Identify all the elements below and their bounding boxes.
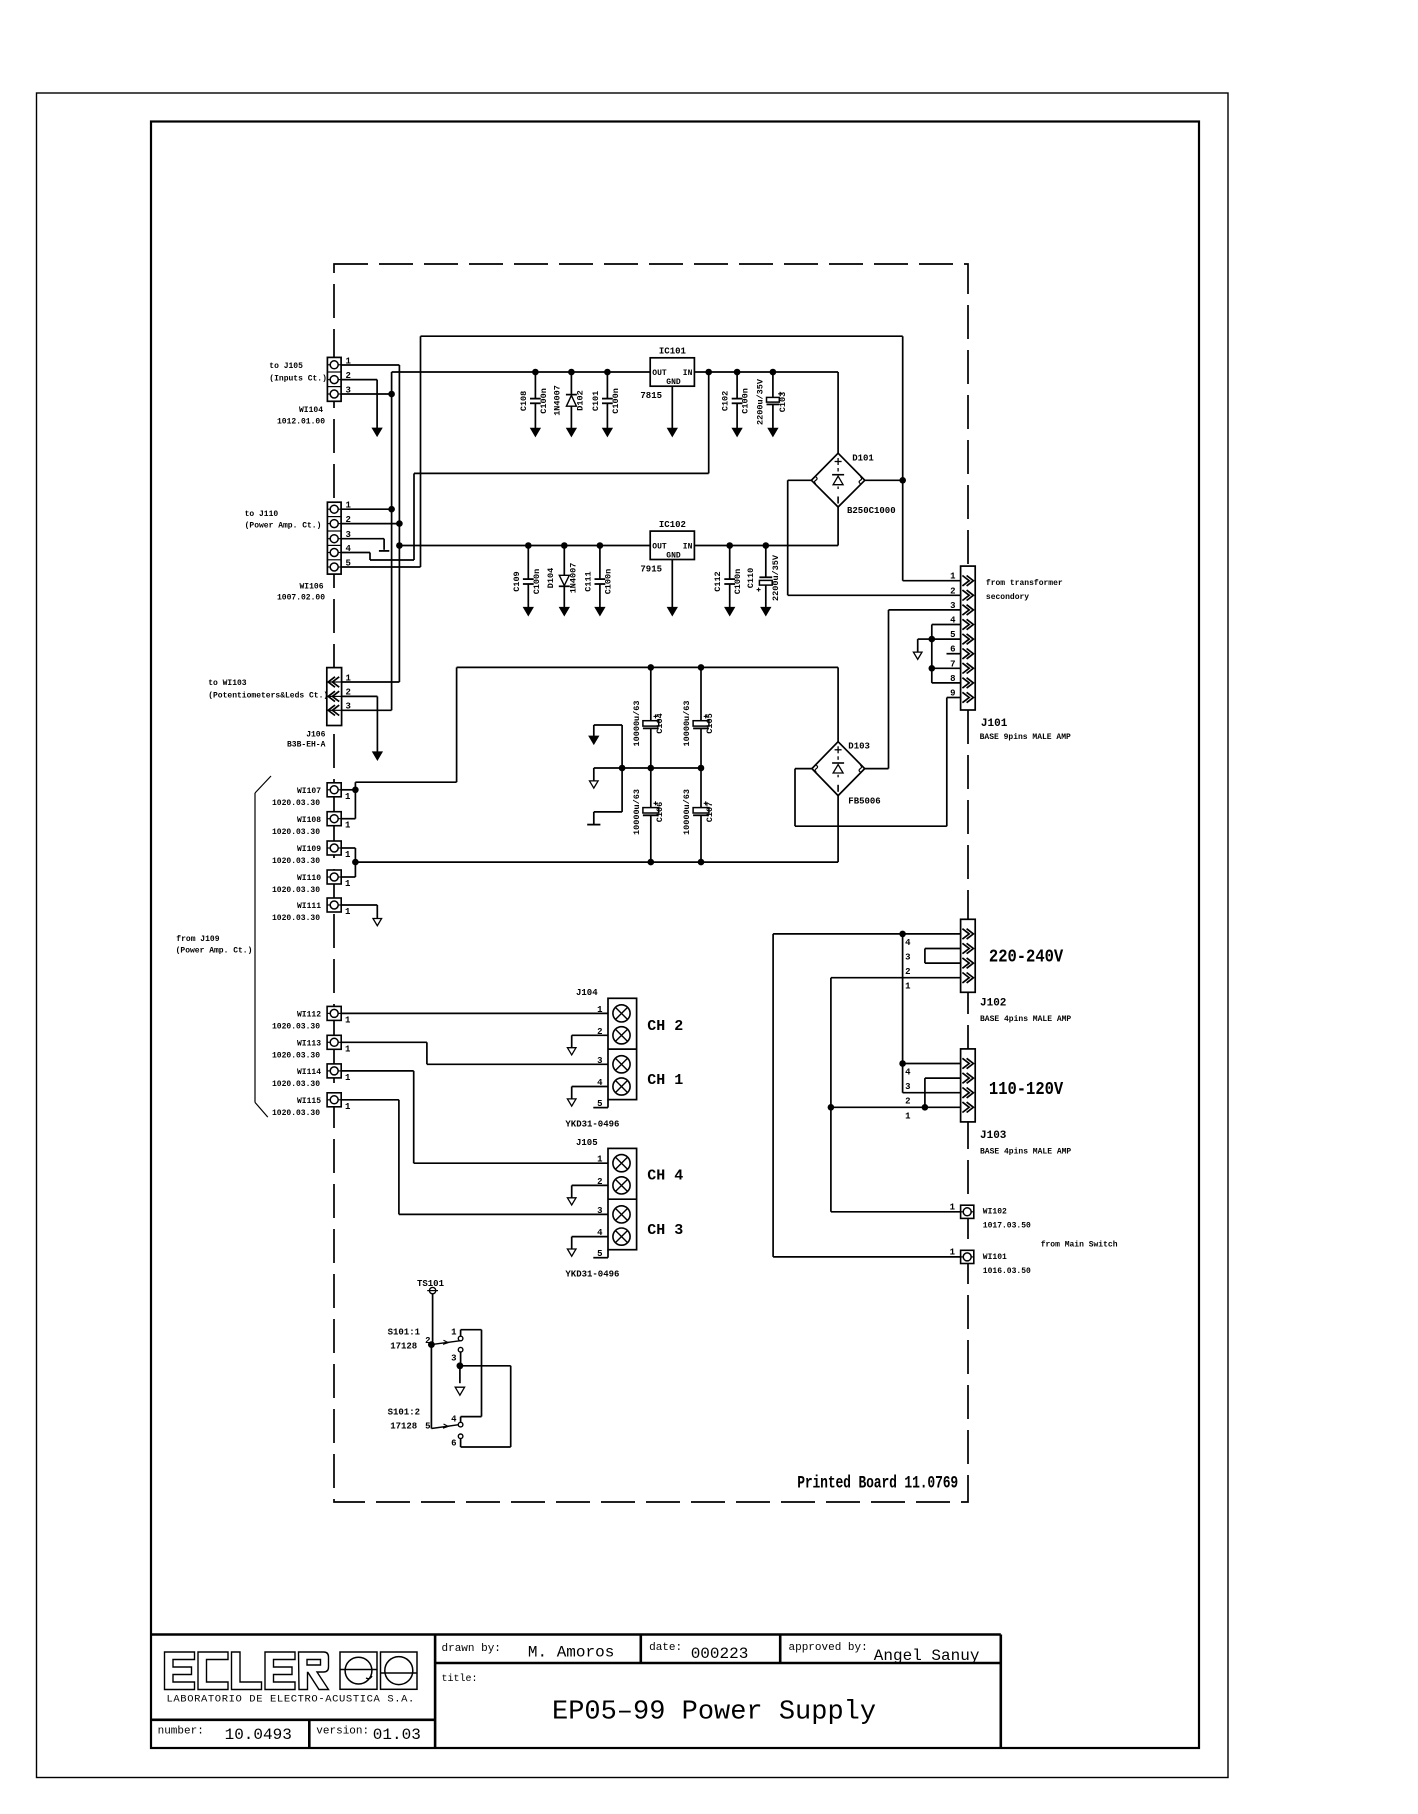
svg-text:GND: GND [666, 551, 681, 560]
svg-text:C100n: C100n [741, 388, 751, 414]
svg-text:3: 3 [346, 386, 351, 396]
svg-text:4: 4 [905, 938, 911, 948]
svg-text:from transformer: from transformer [986, 579, 1063, 588]
svg-text:WI110: WI110 [297, 874, 321, 883]
connector WI111 1020.03.30 [272, 898, 351, 923]
svg-text:WI106: WI106 [299, 583, 323, 592]
svg-text:1: 1 [905, 982, 911, 992]
svg-text:220-240V: 220-240V [989, 947, 1064, 968]
wire net U: WI113 to J104.3 [341, 1042, 608, 1064]
connector J101 BASE 9pins MALE AMP [950, 566, 1071, 742]
svg-text:1020.03.30: 1020.03.30 [272, 1080, 320, 1089]
bridge rectifier D103 FB5006 [812, 741, 881, 806]
svg-text:C100n: C100n [611, 388, 621, 414]
title block grid [151, 1635, 1001, 1749]
svg-text:1: 1 [905, 1111, 911, 1121]
svg-text:1: 1 [345, 1015, 351, 1025]
switch S101:2 17128 [388, 1345, 511, 1449]
svg-text:1016.03.50: 1016.03.50 [983, 1267, 1031, 1276]
wire net B: WI104.2 to ground [341, 380, 382, 436]
svg-text:1: 1 [950, 1248, 956, 1258]
svg-text:C112: C112 [713, 571, 723, 591]
svg-text:YKD31-0496: YKD31-0496 [565, 1120, 619, 1130]
svg-text:1: 1 [950, 1203, 956, 1213]
wire net J: C104/C105 top rail to D103 + and WI107/WI108 [341, 664, 838, 819]
svg-text:1: 1 [346, 501, 352, 511]
svg-text:1: 1 [346, 357, 352, 367]
svg-text:CH 1: CH 1 [647, 1072, 683, 1089]
svg-text:Printed Board 11.0769: Printed Board 11.0769 [797, 1473, 958, 1493]
svg-text:to J105: to J105 [269, 362, 303, 371]
svg-text:17128: 17128 [390, 1422, 417, 1432]
svg-text:1: 1 [950, 572, 956, 582]
wire net E: IC101 IN rail to D101 + and WI106.4 [341, 369, 838, 560]
svg-text:1020.03.30: 1020.03.30 [272, 1023, 320, 1032]
svg-text:1: 1 [345, 821, 351, 831]
svg-text:CH 4: CH 4 [647, 1168, 683, 1185]
svg-text:from Main Switch: from Main Switch [1041, 1241, 1118, 1250]
ECLER logo [165, 1652, 418, 1706]
svg-text:J105: J105 [576, 1138, 598, 1148]
svg-text:C104: C104 [655, 713, 665, 733]
svg-text:110-120V: 110-120V [989, 1080, 1064, 1101]
svg-text:C102: C102 [721, 391, 731, 411]
svg-text:10000u/63: 10000u/63 [632, 701, 642, 747]
svg-text:Angel Sanuy: Angel Sanuy [874, 1647, 980, 1665]
svg-text:5: 5 [950, 630, 955, 640]
svg-text:C109: C109 [512, 571, 522, 591]
wire net S: mains line J102.1 - J103.1 - J103.3 - WI102 [828, 978, 961, 1212]
svg-text:D104: D104 [546, 568, 556, 588]
svg-text:CH 3: CH 3 [647, 1222, 683, 1239]
terminal TS101 [417, 1279, 445, 1345]
svg-text:1017.03.50: 1017.03.50 [983, 1222, 1031, 1231]
bridge rectifier D101 B250C1000 [811, 453, 895, 516]
svg-text:C100n: C100n [532, 569, 542, 595]
svg-text:S101:1: S101:1 [388, 1328, 421, 1338]
connector WI110 1020.03.30 [272, 870, 351, 895]
svg-text:2: 2 [425, 1336, 430, 1346]
svg-text:C103: C103 [778, 392, 788, 412]
svg-text:C110: C110 [746, 568, 756, 588]
svg-text:number:: number: [158, 1726, 204, 1738]
svg-text:M. Amoros: M. Amoros [528, 1644, 614, 1662]
svg-text:17128: 17128 [390, 1342, 417, 1352]
svg-text:J102: J102 [980, 998, 1006, 1010]
svg-text:3: 3 [597, 1056, 602, 1066]
wire net N: D103 ~ right to J101.3 [865, 610, 961, 769]
svg-text:1: 1 [345, 1102, 351, 1112]
svg-text:8: 8 [950, 674, 955, 684]
svg-text:3: 3 [950, 601, 955, 611]
wire net Q: mains line J102.4 - J103.4 - J103.2 - WI101 [773, 931, 961, 1257]
svg-text:WI104: WI104 [299, 406, 323, 415]
connector WI115 1020.03.30 [272, 1093, 351, 1118]
svg-text:J106: J106 [306, 731, 325, 740]
svg-text:IN: IN [683, 369, 693, 378]
svg-text:1020.03.30: 1020.03.30 [272, 914, 320, 923]
connector WI107 1020.03.30 [272, 783, 351, 808]
svg-text:D103: D103 [848, 741, 870, 751]
wire net H: D101 ~ left to J101.2 [788, 480, 961, 595]
svg-text:3: 3 [905, 953, 910, 963]
connector J103 BASE 4pins MALE AMP 110-120V [905, 1049, 1071, 1157]
text Printed Board 11.0769 [797, 1473, 958, 1493]
svg-text:5: 5 [346, 558, 351, 568]
connector J106 B3B-EH-A (to WI103) [208, 668, 351, 750]
capacitor C106 10000u/63 [632, 768, 665, 861]
svg-text:3: 3 [597, 1206, 602, 1216]
connector WI104 (to J105 Inputs Ct.) [269, 357, 351, 427]
capacitor C108 100n [519, 369, 549, 437]
svg-text:version:: version: [316, 1726, 369, 1738]
svg-text:OUT: OUT [652, 369, 667, 378]
svg-text:7815: 7815 [640, 391, 662, 401]
svg-text:3: 3 [346, 702, 351, 712]
svg-text:1: 1 [345, 850, 351, 860]
svg-text:title:: title: [442, 1673, 478, 1685]
svg-text:2: 2 [346, 371, 351, 381]
connector WI108 1020.03.30 [272, 812, 351, 837]
inner border frame [151, 122, 1199, 1749]
svg-text:3: 3 [905, 1082, 910, 1092]
wire net V: WI114 to J105.1 [341, 1071, 608, 1163]
svg-text:000223: 000223 [691, 1645, 749, 1663]
svg-text:C111: C111 [583, 571, 593, 591]
svg-text:secondory: secondory [986, 593, 1029, 602]
svg-text:OUT: OUT [652, 543, 667, 552]
switch S101:1 17128 [388, 1327, 511, 1447]
svg-text:1020.03.30: 1020.03.30 [272, 886, 320, 895]
wire net F: WI106.3 to bar ground [341, 539, 389, 551]
capacitor C110 2200u/35V [746, 542, 781, 615]
svg-text:B250C1000: B250C1000 [847, 506, 896, 516]
svg-text:C108: C108 [519, 391, 529, 411]
wire net T: WI112 to J104.1 [341, 1012, 608, 1014]
svg-text:3: 3 [451, 1354, 456, 1364]
connector J105 YKD31-0496 (CH4/CH3 lamps) [565, 1138, 683, 1280]
svg-text:WI107: WI107 [297, 787, 321, 796]
svg-text:9: 9 [950, 689, 955, 699]
svg-text:WI109: WI109 [297, 845, 321, 854]
svg-text:1: 1 [597, 1155, 603, 1165]
svg-text:5: 5 [425, 1422, 430, 1432]
svg-text:1: 1 [345, 1044, 351, 1054]
capacitor C101 100n [591, 369, 621, 437]
title block texts [158, 1642, 980, 1744]
svg-text:GND: GND [666, 378, 681, 387]
svg-text:1020.03.30: 1020.03.30 [272, 1052, 320, 1061]
capacitor C104 10000u/63 [632, 667, 665, 768]
svg-text:7: 7 [950, 659, 955, 669]
IC102 GND pin to ground [668, 560, 677, 616]
svg-text:1020.03.30: 1020.03.30 [272, 1109, 320, 1118]
svg-text:C100n: C100n [603, 569, 613, 595]
svg-text:1: 1 [451, 1327, 457, 1337]
IC101 GND pin to ground [668, 386, 677, 436]
svg-text:date:: date: [649, 1642, 682, 1654]
wire net M: WI111 to ground [341, 905, 381, 926]
svg-text:BASE 9pins MALE AMP: BASE 9pins MALE AMP [980, 733, 1071, 742]
diode D102 1N4007 [553, 369, 586, 437]
svg-text:WI102: WI102 [983, 1208, 1007, 1217]
wire net R: J102 strap pins 3-2 [925, 949, 961, 964]
printed board dashed outline [334, 264, 968, 1502]
connector WI114 1020.03.30 [272, 1064, 351, 1089]
svg-text:to J110: to J110 [245, 510, 279, 519]
svg-text:WI115: WI115 [297, 1097, 321, 1106]
svg-text:6: 6 [451, 1439, 456, 1449]
svg-text:C100n: C100n [539, 388, 549, 414]
svg-text:7915: 7915 [640, 565, 662, 575]
wire net G: WI106.5 top rail to D101 ~ right and J101.1 [341, 336, 961, 581]
svg-text:1020.03.30: 1020.03.30 [272, 799, 320, 808]
wire net L: bottom rail to D103 - and WI109/WI110 [341, 796, 838, 877]
capacitor C103 2200u/35V [756, 369, 788, 437]
svg-text:1: 1 [345, 879, 351, 889]
svg-text:1020.03.30: 1020.03.30 [272, 828, 320, 837]
svg-text:1: 1 [345, 792, 351, 802]
svg-text:1012.01.00: 1012.01.00 [277, 418, 325, 427]
svg-text:4: 4 [905, 1068, 911, 1078]
regulator IC101 7815 [640, 347, 694, 402]
wire net D: J106.2 to ground [342, 696, 382, 759]
wire net I: D101 - to IC102 IN rail [694, 507, 838, 546]
svg-text:CH 2: CH 2 [647, 1018, 683, 1035]
connector J102 BASE 4pins MALE AMP 220-240V [905, 919, 1071, 1024]
svg-text:1N4007: 1N4007 [568, 563, 578, 594]
connector J104 YKD31-0496 (CH2/CH1 lamps) [565, 988, 683, 1130]
svg-text:D102: D102 [576, 390, 586, 410]
svg-text:2: 2 [346, 515, 351, 525]
svg-text:to WI103: to WI103 [208, 679, 247, 688]
svg-text:C105: C105 [705, 713, 715, 733]
svg-text:4: 4 [346, 544, 352, 554]
svg-text:1: 1 [597, 1005, 603, 1015]
svg-text:(Power Amp. Ct.): (Power Amp. Ct.) [176, 947, 253, 956]
svg-text:WI113: WI113 [297, 1040, 321, 1049]
svg-text:C100n: C100n [733, 569, 743, 595]
regulator IC102 7915 [640, 520, 694, 575]
text from Main Switch [1041, 1241, 1118, 1250]
svg-text:01.03: 01.03 [373, 1726, 421, 1744]
capacitor C112 100n [713, 542, 743, 615]
capacitor C109 100n [512, 542, 542, 615]
connector WI109 1020.03.30 [272, 841, 351, 866]
wire net O: D103 ~ left to J101.9 [795, 698, 961, 827]
svg-text:IC101: IC101 [659, 347, 687, 357]
svg-text:LABORATORIO DE ELECTRO-ACUSTIC: LABORATORIO DE ELECTRO-ACUSTICA S.A. [167, 1694, 415, 1706]
svg-text:1020.03.30: 1020.03.30 [272, 857, 320, 866]
svg-text:B3B-EH-A: B3B-EH-A [287, 741, 326, 750]
svg-text:WI108: WI108 [297, 816, 321, 825]
svg-text:J101: J101 [981, 718, 1008, 730]
connector WI106 (to J110 Power Amp. Ct.) [245, 501, 352, 603]
svg-text:EP05–99 Power Supply: EP05–99 Power Supply [552, 1698, 876, 1728]
svg-text:10.0493: 10.0493 [225, 1726, 292, 1744]
wire net P: J101 pins 4-5-7-8 bracket with ground [913, 625, 960, 683]
svg-text:1N4007: 1N4007 [553, 385, 563, 416]
wire net C: +15V OUT rail IC101 - WI104.3 - WI106.1 - J106.3 [341, 372, 650, 710]
outer border frame [37, 93, 1229, 1778]
connector WI113 1020.03.30 [272, 1035, 351, 1060]
svg-text:from J109: from J109 [176, 935, 219, 944]
connector WI102 1017.03.50 [950, 1203, 1031, 1231]
svg-text:2: 2 [905, 967, 910, 977]
svg-text:4: 4 [451, 1414, 457, 1424]
svg-text:2: 2 [346, 688, 351, 698]
svg-text:C101: C101 [591, 391, 601, 411]
svg-text:WI112: WI112 [297, 1011, 321, 1020]
svg-text:(Potentiometers&Leds Ct.): (Potentiometers&Leds Ct.) [208, 692, 328, 701]
svg-text:IN: IN [683, 543, 693, 552]
bracket from J109 (Power Amp. Ct.) [176, 776, 271, 1117]
svg-text:2200u/35V: 2200u/35V [771, 554, 781, 601]
svg-text:4: 4 [950, 616, 956, 626]
svg-text:10000u/63: 10000u/63 [682, 701, 692, 747]
svg-text:3: 3 [346, 530, 351, 540]
svg-text:BASE 4pins MALE AMP: BASE 4pins MALE AMP [980, 1148, 1071, 1157]
svg-text:FB5006: FB5006 [848, 796, 880, 806]
diode D104 1N4007 [546, 542, 579, 615]
svg-text:YKD31-0496: YKD31-0496 [565, 1270, 619, 1280]
connector WI101 1016.03.50 [950, 1248, 1031, 1276]
svg-text:10000u/63: 10000u/63 [682, 789, 692, 835]
svg-text:BASE 4pins MALE AMP: BASE 4pins MALE AMP [980, 1015, 1071, 1024]
capacitor C102 100n [721, 369, 751, 437]
svg-text:IC102: IC102 [659, 520, 686, 530]
svg-text:1007.02.00: 1007.02.00 [277, 594, 325, 603]
svg-text:2200u/35V: 2200u/35V [756, 378, 766, 425]
svg-text:J103: J103 [980, 1130, 1007, 1142]
svg-text:10000u/63: 10000u/63 [632, 789, 642, 835]
svg-text:(Power Amp. Ct.): (Power Amp. Ct.) [245, 522, 322, 531]
wire net K: centre-tap rail with three grounds [587, 725, 704, 825]
svg-text:6: 6 [950, 645, 955, 655]
svg-text:WI101: WI101 [983, 1253, 1007, 1262]
svg-text:D101: D101 [852, 454, 874, 464]
capacitor C111 100n [583, 542, 613, 615]
svg-text:approved by:: approved by: [789, 1642, 868, 1654]
svg-text:S101:2: S101:2 [388, 1408, 420, 1418]
svg-text:WI111: WI111 [297, 902, 321, 911]
capacitor C105 10000u/63 [682, 667, 715, 768]
svg-text:1: 1 [345, 907, 351, 917]
svg-text:WI114: WI114 [297, 1068, 321, 1077]
svg-text:(Inputs Ct.): (Inputs Ct.) [269, 375, 327, 384]
wire J101 pin6 stub [947, 653, 961, 655]
wire net W: WI115 to J105.3 [341, 1100, 608, 1215]
svg-text:J104: J104 [576, 988, 598, 998]
svg-text:1: 1 [346, 673, 352, 683]
wire net A: WI104.1 - J106.1 vertical, WI106.2, IC102 OUT rail [341, 365, 650, 682]
svg-text:C107: C107 [705, 802, 715, 822]
capacitor C107 10000u/63 [682, 768, 715, 861]
svg-text:drawn by:: drawn by: [442, 1643, 501, 1655]
connector WI112 1020.03.30 [272, 1006, 351, 1031]
svg-text:2: 2 [905, 1097, 910, 1107]
svg-text:2: 2 [950, 586, 955, 596]
svg-text:C106: C106 [655, 802, 665, 822]
svg-text:1: 1 [345, 1073, 351, 1083]
